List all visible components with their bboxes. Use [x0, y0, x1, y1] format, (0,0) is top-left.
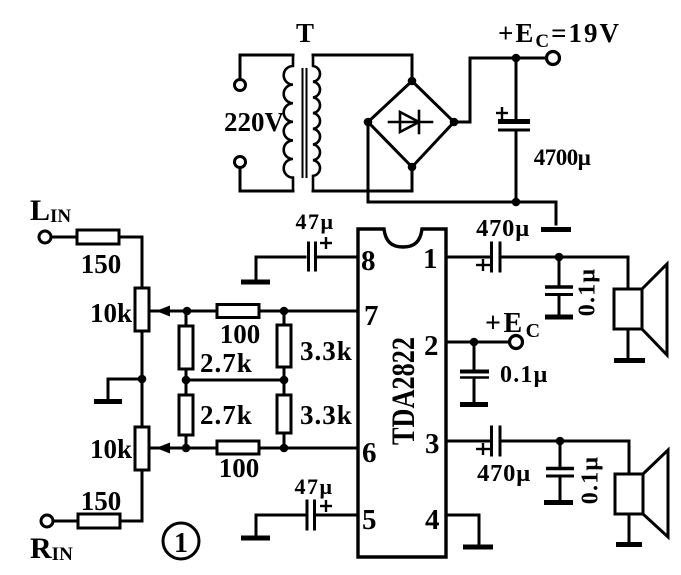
resistor 2.7k bottom [185, 380, 188, 395]
svg-text:150: 150 [81, 486, 122, 516]
resistor 2.7k top [185, 311, 188, 326]
svg-text:10k: 10k [90, 434, 132, 464]
terminal L_IN [39, 231, 51, 243]
terminal R_IN [41, 515, 53, 527]
bridge rectifier [368, 81, 454, 167]
svg-text:470μ: 470μ [476, 215, 530, 242]
potentiometer 10k top [135, 288, 149, 331]
terminal primary bottom [235, 157, 246, 168]
middle row wire [186, 379, 284, 382]
wire cap to ground [256, 515, 304, 535]
capacitor 0.1u out2 [559, 441, 562, 466]
wiper wire pot2 [149, 447, 187, 450]
svg-text:8: 8 [361, 245, 376, 277]
wire cap to ground [256, 257, 305, 279]
wire primary bottom [240, 168, 293, 191]
svg-text:150: 150 [81, 249, 122, 279]
wire bridge right to +Ec bus [454, 58, 546, 122]
node B top [280, 307, 289, 316]
node B bottom [280, 444, 289, 453]
resistor 100 bottom [217, 441, 259, 454]
svg-text:1: 1 [423, 243, 438, 275]
node A top [183, 307, 192, 316]
wire [52, 236, 77, 239]
wire to node [502, 440, 629, 443]
capacitor 0.1u pin2 [473, 342, 476, 369]
svg-text:0.1μ: 0.1μ [578, 456, 604, 504]
wire to node [502, 256, 628, 259]
wire secondary bottom to bridge [313, 167, 412, 191]
node pin2 [470, 338, 479, 347]
transformer T secondary winding [313, 55, 320, 191]
svg-text:2.7k: 2.7k [200, 400, 253, 430]
figure number circled 1 [163, 523, 199, 559]
row pin6 wire [187, 447, 358, 450]
terminal +Ec out [510, 336, 523, 349]
wire pin4 to ground [446, 515, 479, 544]
wire to pot1 [119, 237, 142, 288]
svg-text:470μ: 470μ [477, 460, 531, 487]
node mid right [280, 376, 289, 385]
main vertical between pots [141, 331, 144, 427]
capacitor 47u pin8 [316, 256, 358, 259]
wire secondary top to bridge [313, 55, 412, 81]
resistor 150 bottom [78, 514, 120, 528]
row pin7 wire [187, 310, 358, 313]
svg-text:100: 100 [220, 319, 261, 349]
wire bridge left to ground bus [368, 122, 556, 224]
node out2 [556, 437, 565, 446]
wire pot2 to R_IN [120, 470, 142, 521]
capacitor C 4700u [515, 58, 518, 119]
wire pin2 to +Ec [446, 341, 509, 344]
svg-text:220V: 220V [224, 107, 285, 137]
capacitor 470u pin3 [446, 440, 490, 443]
resistor 100 top [217, 305, 259, 318]
svg-text:TDA2822: TDA2822 [386, 337, 422, 445]
svg-text:4: 4 [425, 504, 440, 536]
svg-text:4700μ: 4700μ [534, 145, 591, 170]
resistor 3.3k top [283, 311, 286, 325]
svg-text:10k: 10k [90, 298, 132, 328]
ground bus symbol [541, 227, 571, 232]
node 4700u top [512, 54, 521, 63]
svg-text:+EC=19V: +EC=19V [498, 18, 621, 52]
svg-text:0.1μ: 0.1μ [500, 362, 548, 388]
bridge diode symbol [389, 121, 432, 124]
resistor 150 top [77, 230, 119, 244]
node bridge right [450, 118, 459, 127]
node mid left [182, 376, 191, 385]
svg-text:3: 3 [425, 428, 440, 460]
speaker SP2 [628, 441, 631, 474]
transformer T primary winding [284, 55, 293, 191]
potentiometer 10k bottom [135, 427, 149, 470]
ground pin8 [241, 280, 270, 285]
svg-text:2: 2 [424, 330, 439, 362]
capacitor 470u pin1 [446, 256, 490, 259]
svg-text:47μ: 47μ [295, 474, 334, 499]
node bridge bottom [408, 163, 417, 172]
wire [54, 520, 78, 523]
capacitor 47u pin5 [316, 514, 358, 517]
capacitor 0.1u out1 [558, 257, 561, 285]
wiper wire pot1 [149, 310, 187, 313]
ground left [108, 379, 142, 399]
node bridge top [408, 77, 417, 86]
speaker SP1 [627, 257, 630, 289]
resistor 3.3k bottom [283, 380, 286, 395]
svg-text:1: 1 [174, 528, 188, 559]
transformer core [302, 68, 304, 178]
svg-text:100: 100 [219, 453, 260, 483]
node bridge left [364, 118, 373, 127]
ground pin5 [241, 536, 270, 541]
IC U1 TDA2822 body [358, 229, 446, 557]
svg-text:5: 5 [362, 504, 377, 536]
node ground tap [138, 375, 147, 384]
node ground bus [512, 198, 521, 207]
svg-text:T: T [296, 18, 314, 48]
svg-text:3.3k: 3.3k [300, 336, 353, 366]
svg-text:0.1μ: 0.1μ [575, 268, 601, 316]
svg-text:47μ: 47μ [296, 209, 335, 234]
svg-text:7: 7 [364, 300, 379, 332]
node A bottom [182, 444, 191, 453]
terminal +Ec [547, 52, 560, 65]
terminal primary top [235, 80, 246, 91]
node out1 [555, 253, 564, 262]
svg-text:3.3k: 3.3k [300, 400, 353, 430]
svg-text:2.7k: 2.7k [200, 348, 253, 378]
wire primary top [240, 55, 293, 79]
svg-text:6: 6 [362, 437, 377, 469]
